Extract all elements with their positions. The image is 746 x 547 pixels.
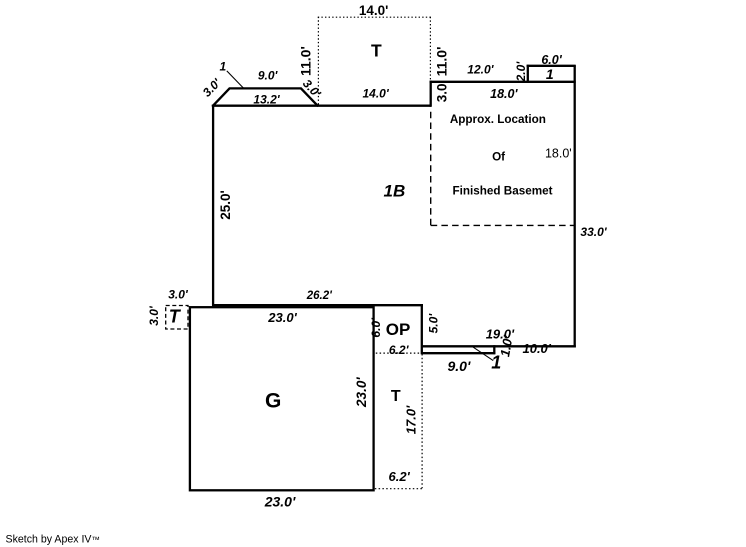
svg-text:14.0': 14.0' <box>359 3 389 18</box>
svg-text:6.0': 6.0' <box>541 53 562 67</box>
svg-text:Approx. Location: Approx. Location <box>450 113 546 126</box>
dotted: top T right edge <box>429 17 431 80</box>
wall: 18.0' top line right section <box>430 81 576 83</box>
svg-text:3.0': 3.0' <box>435 80 450 102</box>
svg-text:3.0': 3.0' <box>168 287 189 301</box>
svg-text:Of: Of <box>492 150 505 163</box>
svg-text:17.0': 17.0' <box>404 405 419 434</box>
svg-text:T: T <box>391 388 401 405</box>
svg-text:6.0': 6.0' <box>369 317 383 338</box>
dotted: bottom T bottom edge <box>375 488 423 490</box>
svg-text:OP: OP <box>386 320 411 339</box>
wall: right edge 33.0' <box>574 65 576 347</box>
wall: trapezoid bay top-left <box>212 88 318 106</box>
svg-text:26.2': 26.2' <box>306 290 333 302</box>
wall: garage G rectangle <box>190 307 374 490</box>
wall: 26.2' bottom line of 1B <box>212 304 423 306</box>
svg-text:1: 1 <box>546 66 554 82</box>
dotted: top T left edge <box>317 17 319 105</box>
svg-text:10.0': 10.0' <box>522 341 551 356</box>
wall: 3.0' step at x=430 <box>430 81 432 107</box>
svg-text:25.0': 25.0' <box>218 190 233 220</box>
svg-text:18.0': 18.0' <box>490 87 518 101</box>
wall: bump 2.0' left edge <box>527 65 529 83</box>
svg-text:23.0': 23.0' <box>354 377 369 408</box>
svg-text:1: 1 <box>491 353 501 373</box>
svg-text:1: 1 <box>219 60 226 74</box>
svg-text:14.0': 14.0' <box>362 87 389 101</box>
svg-text:3.0': 3.0' <box>147 305 161 326</box>
dashed: small T square left of garage <box>166 306 188 330</box>
svg-text:T: T <box>371 40 382 60</box>
svg-text:23.0': 23.0' <box>267 310 297 325</box>
dotted: top T top edge 14.0' <box>318 16 431 18</box>
wall: OP right edge 5.0' <box>421 304 423 354</box>
svg-text:6.2': 6.2' <box>389 343 410 357</box>
dashed: finished basement bottom edge 33.0' <box>431 224 575 226</box>
svg-text:1B: 1B <box>384 182 406 201</box>
dotted: bottom T right edge 17.0' <box>421 354 423 488</box>
svg-text:18.0': 18.0' <box>545 147 572 161</box>
svg-text:11.0': 11.0' <box>433 47 449 77</box>
wall: strip right end 1.0' <box>493 345 495 354</box>
svg-text:2.0': 2.0' <box>514 61 528 83</box>
svg-text:11.0': 11.0' <box>298 46 314 76</box>
svg-text:5.0': 5.0' <box>427 313 441 334</box>
svg-text:33.0': 33.0' <box>580 225 607 239</box>
wall: strip bottom 9.0' <box>422 352 496 354</box>
leader line: callout 1 top-left <box>227 71 244 88</box>
svg-text:12.0': 12.0' <box>467 62 494 76</box>
wall: bottom right 10.0' + 19.0' strip top <box>422 345 575 347</box>
svg-text:G: G <box>265 389 281 412</box>
dotted: bottom T top edge 6.2' <box>376 352 422 354</box>
wall: bump 6.0' top edge <box>527 65 576 67</box>
svg-text:Sketch by Apex IV™: Sketch by Apex IV™ <box>6 534 100 546</box>
leader line: callout 1 bottom strip <box>472 347 493 361</box>
svg-text:6.2': 6.2' <box>389 469 411 484</box>
svg-text:9.0': 9.0' <box>258 68 279 82</box>
svg-text:Finished Basemet: Finished Basemet <box>452 185 552 198</box>
svg-text:13.2': 13.2' <box>253 92 280 106</box>
wall: main top line (13.2' + 14.0') <box>212 105 431 107</box>
dashed: finished basement left edge <box>430 112 432 226</box>
svg-text:9.0': 9.0' <box>448 358 471 374</box>
svg-text:23.0': 23.0' <box>264 494 296 510</box>
wall: left wall 25.0' <box>212 105 214 306</box>
